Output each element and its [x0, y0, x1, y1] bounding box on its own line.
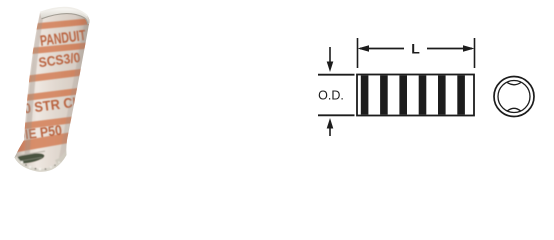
- svg-text:O.D.: O.D.: [318, 89, 344, 103]
- svg-text:L: L: [411, 41, 420, 57]
